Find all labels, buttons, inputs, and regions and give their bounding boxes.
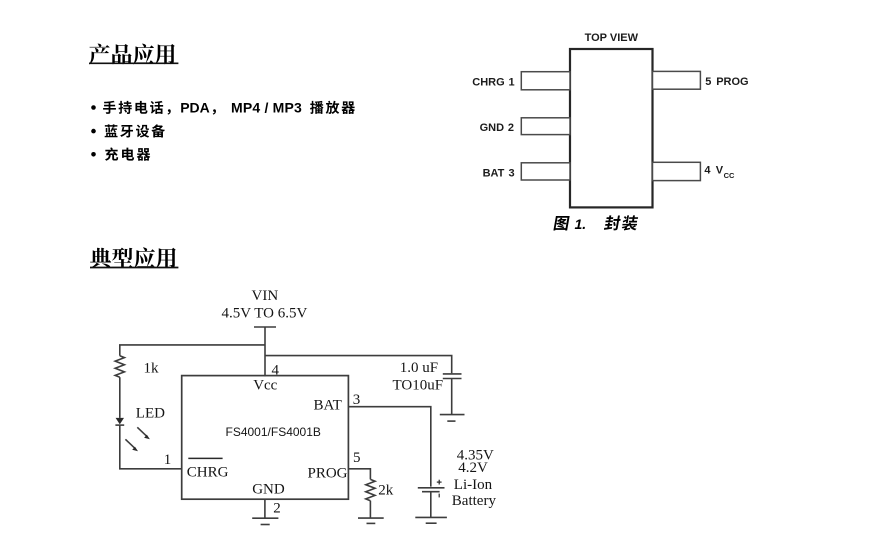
svg-text:PDA: PDA bbox=[180, 100, 210, 116]
pin 5 PROG bbox=[653, 71, 701, 89]
svg-text:GND: GND bbox=[480, 122, 505, 134]
svg-text:2k: 2k bbox=[378, 483, 394, 499]
heading 产品应用 bbox=[89, 44, 175, 65]
wire LED to pin 1 CHRG bbox=[120, 426, 182, 469]
svg-text:MP4 / MP3: MP4 / MP3 bbox=[231, 100, 302, 116]
heading 典型应用 bbox=[90, 247, 176, 268]
svg-text:Li-Ion: Li-Ion bbox=[454, 477, 493, 493]
svg-text:4.2V: 4.2V bbox=[458, 460, 488, 476]
svg-text:PROG: PROG bbox=[716, 76, 748, 88]
battery BT1 plates bbox=[418, 487, 445, 489]
wire GND pin down bbox=[264, 499, 266, 518]
IC U1 FS4001/FS4001B body bbox=[182, 376, 349, 500]
resistor R2 2k bbox=[366, 479, 375, 500]
wire BAT pin to battery bbox=[348, 407, 430, 487]
svg-text:TO10uF: TO10uF bbox=[393, 378, 444, 394]
svg-text:5: 5 bbox=[353, 450, 361, 466]
svg-text:2: 2 bbox=[508, 122, 514, 134]
svg-text:CC: CC bbox=[724, 171, 735, 180]
wire C1 to ground bbox=[451, 379, 453, 415]
LED D1 bbox=[116, 418, 124, 425]
bullet item 2 bbox=[91, 129, 96, 134]
svg-text:Battery: Battery bbox=[452, 493, 497, 509]
figure caption 图 1. 封装 bbox=[553, 216, 569, 230]
capacitor C1 plates bbox=[443, 373, 462, 375]
svg-text:GND: GND bbox=[252, 481, 285, 497]
svg-text:1: 1 bbox=[164, 452, 172, 468]
svg-text:3: 3 bbox=[509, 167, 515, 179]
wire to capacitor C1 bbox=[265, 356, 452, 374]
svg-text:V: V bbox=[716, 165, 724, 177]
svg-text:TOP VIEW: TOP VIEW bbox=[585, 32, 639, 44]
svg-text:2: 2 bbox=[273, 500, 281, 516]
wire BT1 to ground bbox=[430, 492, 432, 518]
resistor R1 1k bbox=[115, 356, 124, 377]
pin 3 BAT bbox=[521, 163, 570, 180]
svg-text:1.: 1. bbox=[575, 216, 587, 232]
LED emission arrows bbox=[125, 427, 147, 448]
ground (C1) bbox=[440, 414, 465, 416]
svg-text:BAT: BAT bbox=[314, 398, 342, 414]
svg-text:Vcc: Vcc bbox=[253, 377, 277, 393]
svg-text:CHRG: CHRG bbox=[187, 464, 229, 480]
bullet item 1 bbox=[91, 105, 96, 110]
svg-text:1.0 uF: 1.0 uF bbox=[400, 360, 438, 376]
heading underline bbox=[90, 267, 178, 269]
svg-text:CHRG: CHRG bbox=[472, 77, 504, 89]
svg-text:PROG: PROG bbox=[308, 466, 348, 482]
ground (BT1) bbox=[415, 516, 447, 518]
heading underline bbox=[89, 62, 178, 64]
svg-text:BAT: BAT bbox=[483, 167, 505, 179]
svg-text:3: 3 bbox=[353, 392, 361, 408]
bullet item 3 bbox=[91, 152, 96, 157]
wire VIN down to pin 4 bbox=[264, 327, 266, 376]
IC package body (TOP VIEW) bbox=[570, 49, 653, 207]
pin 1 CHRG bbox=[521, 72, 570, 90]
wire top rail to resistor 1k bbox=[120, 345, 265, 356]
node VIN terminal bar bbox=[254, 326, 276, 328]
wire PROG to resistor 2k bbox=[348, 469, 370, 480]
wire R1 to LED bbox=[119, 377, 121, 418]
svg-text:VIN: VIN bbox=[252, 288, 279, 304]
svg-text:FS4001/FS4001B: FS4001/FS4001B bbox=[226, 425, 321, 439]
svg-text:4: 4 bbox=[704, 165, 711, 177]
svg-text:5: 5 bbox=[705, 76, 711, 88]
svg-text:1k: 1k bbox=[144, 361, 160, 377]
ground (R2) bbox=[358, 517, 384, 519]
svg-text:4: 4 bbox=[272, 363, 280, 379]
battery minus terminal mark bbox=[438, 494, 440, 498]
svg-text:1: 1 bbox=[509, 77, 515, 89]
svg-text:4.5V TO 6.5V: 4.5V TO 6.5V bbox=[222, 306, 308, 322]
svg-text:LED: LED bbox=[136, 406, 165, 422]
ground (GND pin) bbox=[252, 517, 278, 519]
wire R2 to ground bbox=[369, 501, 371, 518]
pin 2 GND bbox=[521, 118, 570, 135]
pin 4 VCC bbox=[653, 162, 701, 180]
battery plus terminal mark bbox=[437, 480, 442, 485]
